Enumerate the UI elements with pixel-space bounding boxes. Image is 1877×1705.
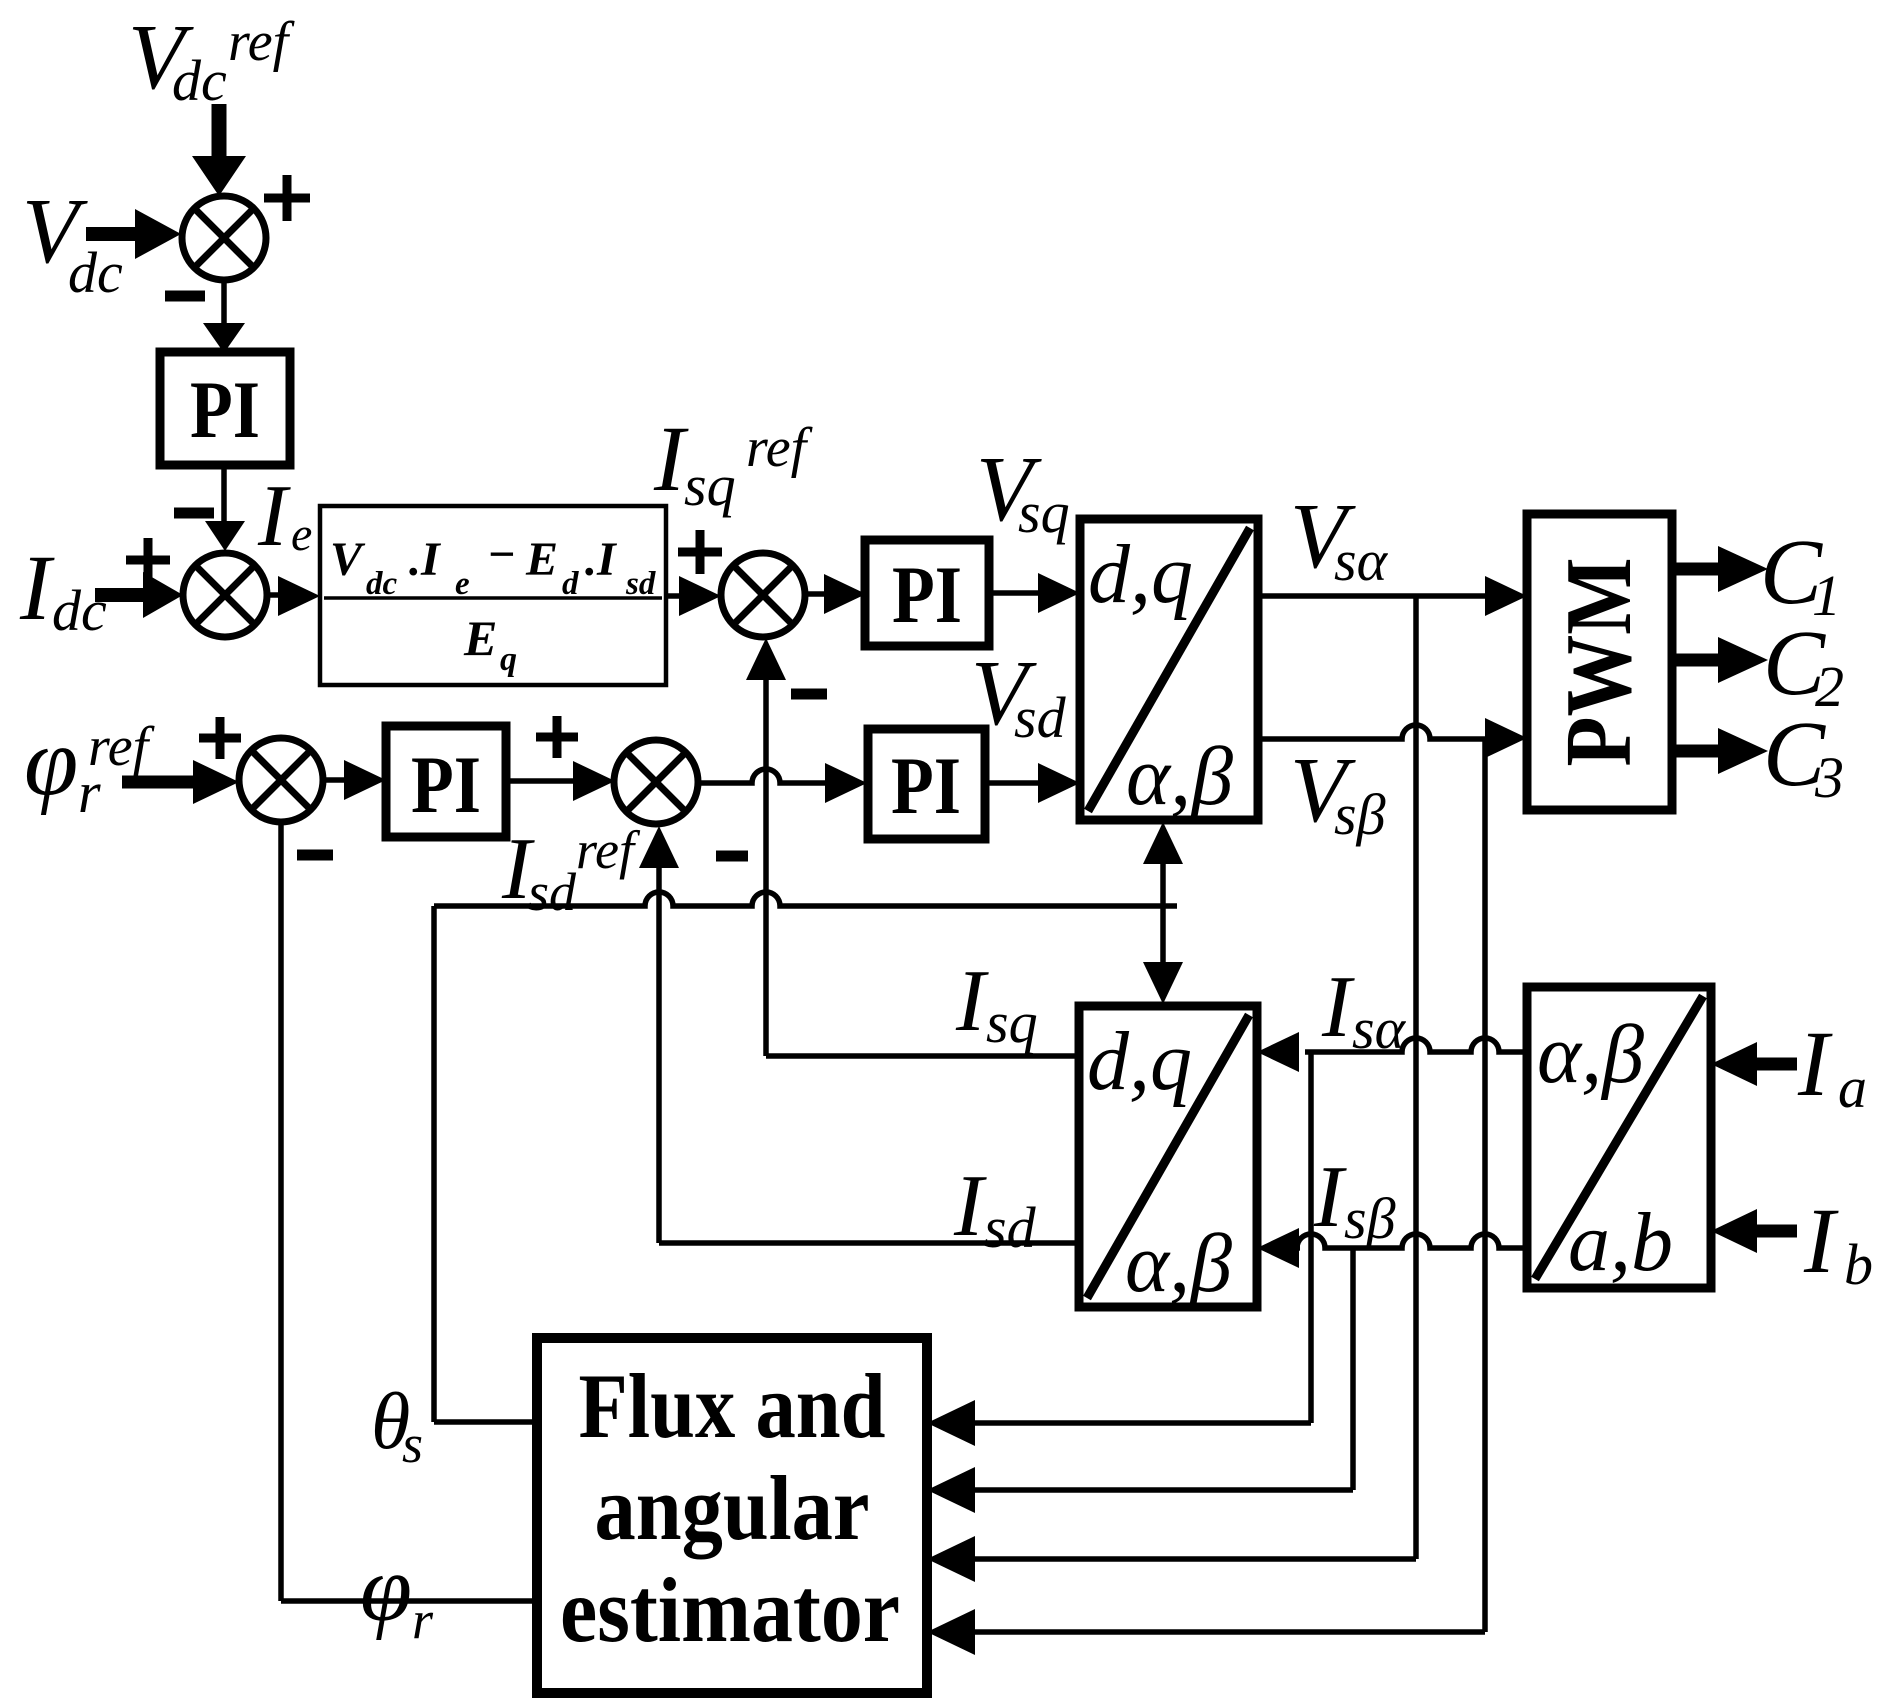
- label Isq (feedback): [955, 953, 1038, 1055]
- label Ie (error current): [257, 468, 312, 565]
- wire S1 to PI1 with arrowhead: [203, 280, 245, 353]
- minus sign at S5 bottom input: [716, 851, 748, 862]
- svg-text:E: E: [463, 610, 497, 666]
- wire Vs_beta branch down at x=1485 to estimator row: [1482, 739, 1488, 1632]
- wire theta_s from estimator up across to double arrow (hops at x659, x766): [434, 892, 1177, 1422]
- svg-text:sβ: sβ: [1334, 782, 1386, 847]
- svg-text:PI: PI: [411, 739, 481, 830]
- svg-text:PI: PI: [190, 364, 260, 455]
- label Isd (feedback): [953, 1158, 1037, 1260]
- minus sign at S1 bottom output side: [165, 291, 205, 302]
- label Ia: [1797, 1013, 1867, 1120]
- svg-text:φ: φ: [360, 1537, 412, 1641]
- svg-text:PI: PI: [891, 740, 961, 831]
- svg-text:a,b: a,b: [1568, 1196, 1673, 1289]
- svg-text:I: I: [1803, 1190, 1839, 1293]
- plus sign at S1 top-right input: [264, 175, 310, 221]
- wire Vs_alpha branch down at x=1416 to estimator row: [1413, 596, 1419, 1559]
- thick input arrow phi_r_ref into S4: [122, 760, 239, 804]
- svg-text:d: d: [562, 566, 579, 602]
- svg-text:3: 3: [1814, 745, 1844, 810]
- equation block (Vdc.Ie - Ed.Isd)/Eq: [320, 506, 666, 685]
- svg-text:I: I: [257, 468, 291, 565]
- wire Isq feedback B2 to S3: left then up with arrowhead: [746, 638, 1079, 1056]
- label Vsd: [971, 642, 1067, 750]
- wire S4 to PI3 with arrowhead: [323, 760, 386, 800]
- label phi_r_ref (rotor flux reference): [24, 708, 156, 825]
- wire Is_beta from B3 to B2 with hops, arrowhead: [1257, 1228, 1527, 1268]
- transform block B3 phase currents to alpha-beta: [1527, 987, 1711, 1289]
- thick output arrow C2: [1672, 637, 1768, 683]
- svg-text:I: I: [1313, 1149, 1347, 1246]
- wire PI2 to dq/ab block B1 with arrowhead: [989, 573, 1080, 613]
- thick output arrow C1: [1672, 546, 1768, 592]
- label Isq_ref above summing junction S3: [653, 408, 814, 518]
- svg-text:sq: sq: [684, 453, 736, 518]
- label C1: [1760, 521, 1841, 628]
- minus sign at S4 bottom input: [297, 850, 333, 861]
- svg-text:e: e: [455, 566, 470, 602]
- theta_s double-headed arrow between B1 and B2: [1143, 822, 1183, 1004]
- thick input arrow Idc into S2 left: [95, 572, 183, 618]
- svg-text:α,β: α,β: [1537, 1008, 1644, 1101]
- flux and angular estimator block: [537, 1338, 927, 1693]
- svg-text:PI: PI: [892, 549, 962, 640]
- svg-text:sd: sd: [984, 1195, 1037, 1260]
- wire equation block to S3 with arrowhead: [666, 576, 721, 616]
- label theta_s: [371, 1378, 423, 1474]
- summing junction S3 (Isq_ref - Isq): [721, 553, 805, 637]
- wire Vs_alpha into estimator right with arrowhead: [927, 1536, 1416, 1582]
- svg-text:s: s: [402, 1414, 423, 1474]
- svg-text:ref: ref: [746, 417, 814, 479]
- PI block PI2 (q-axis current controller): [865, 540, 989, 646]
- thick input arrow Vdc_ref down into summing junction S1: [192, 104, 246, 196]
- svg-text:I: I: [955, 953, 989, 1050]
- summing junction S2 (Idc + Ie): [183, 553, 267, 637]
- svg-text:d,q: d,q: [1087, 1015, 1192, 1108]
- svg-text:E: E: [525, 533, 558, 586]
- svg-text:φ: φ: [24, 708, 78, 816]
- label Vs_beta: [1290, 739, 1386, 847]
- thick input arrow Ib into B3: [1711, 1209, 1797, 1253]
- label Vdc (measured dc voltage): [22, 180, 123, 305]
- PI block PI4 (d-axis current controller): [868, 729, 985, 839]
- svg-text:q: q: [500, 641, 517, 678]
- wire Is_beta branch down at x=1353 to estimator: [1350, 1248, 1356, 1490]
- wire Vs_alpha B1 to PWM with arrowhead: [1258, 576, 1527, 616]
- wire Is_alpha branch down at x=1311 to estimator: [1308, 1052, 1314, 1423]
- svg-text:.I: .I: [409, 533, 442, 586]
- svg-text:sd: sd: [625, 566, 656, 602]
- svg-text:sq: sq: [986, 990, 1038, 1055]
- plus sign at S4 left input: [199, 717, 241, 759]
- svg-text:I: I: [19, 537, 55, 640]
- label Idc (dc current): [19, 537, 107, 643]
- svg-text:a: a: [1838, 1055, 1867, 1120]
- thick input arrow Ia into B3: [1711, 1042, 1797, 1086]
- plus sign at S2 left input: [126, 538, 170, 582]
- wire S2 to equation block with arrowhead: [267, 576, 320, 616]
- svg-text:PWM: PWM: [1547, 558, 1651, 767]
- svg-text:dc: dc: [172, 48, 227, 113]
- wire Is_alpha from B3 to B2 with hops, arrowhead: [1257, 1032, 1527, 1072]
- svg-text:ref: ref: [88, 716, 156, 778]
- svg-text:b: b: [1844, 1232, 1873, 1297]
- wire PI1 to summing junction S2 with arrowhead: [205, 465, 245, 551]
- plus sign at S5 left input: [536, 716, 578, 758]
- wire S5 to PI4 with hop over Isq feedback, arrowhead: [698, 763, 867, 803]
- svg-text:dc: dc: [68, 240, 123, 305]
- svg-text:sβ: sβ: [1344, 1186, 1396, 1251]
- label Ib: [1803, 1190, 1873, 1297]
- summing junction S1 (Vdc_ref - Vdc): [182, 196, 266, 280]
- svg-text:Flux and: Flux and: [579, 1355, 886, 1457]
- svg-text:e: e: [291, 508, 312, 561]
- svg-text:−: −: [487, 528, 516, 581]
- thick output arrow C3: [1672, 728, 1768, 774]
- label Is_alpha: [1321, 959, 1407, 1061]
- wire Is_alpha into estimator right with arrowhead: [927, 1400, 1311, 1446]
- svg-text:sα: sα: [1334, 528, 1389, 593]
- transform block B1 dq to alpha-beta (voltages): [1080, 519, 1258, 823]
- wire Is_beta into estimator right with arrowhead: [927, 1467, 1353, 1513]
- svg-text:α,β: α,β: [1125, 1217, 1232, 1310]
- label Isd_ref: [501, 820, 641, 922]
- label Vs_alpha: [1290, 485, 1389, 593]
- label Vsq: [976, 438, 1070, 545]
- label Vdc_ref (input reference): [128, 6, 296, 113]
- svg-text:ref: ref: [228, 11, 296, 73]
- label Is_beta: [1313, 1149, 1396, 1251]
- wire PI4 to dq/ab block B1 with arrowhead: [985, 763, 1080, 803]
- summing junction S5 (Isd_ref - Isd): [614, 740, 698, 824]
- svg-text:V: V: [330, 533, 366, 586]
- svg-text:I: I: [1321, 959, 1355, 1056]
- PI block PI3 (flux controller): [386, 726, 506, 837]
- svg-text:d,q: d,q: [1088, 528, 1193, 621]
- wire Isd feedback B2 to S5: left then up with arrowhead: [639, 826, 1079, 1243]
- svg-text:sq: sq: [1018, 480, 1070, 545]
- wire Vs_beta B1 to PWM with hop over Vs_alpha drop, arrowhead: [1258, 718, 1527, 758]
- svg-text:I: I: [1797, 1013, 1833, 1116]
- summing junction S4 (phi_ref - phi_r): [239, 738, 323, 822]
- thick input arrow Vdc into S1 left: [86, 209, 181, 259]
- minus sign at S2 top input: [174, 508, 214, 519]
- wire PI3 to S5 with arrowhead: [506, 761, 615, 801]
- label C2: [1763, 612, 1844, 719]
- svg-text:sd: sd: [1014, 685, 1067, 750]
- svg-text:dc: dc: [366, 566, 398, 602]
- wire phi_r from estimator left then up into S4 bottom: [281, 822, 537, 1601]
- svg-text:sd: sd: [528, 862, 577, 922]
- label phi_r: [360, 1537, 434, 1650]
- svg-text:dc: dc: [52, 578, 107, 643]
- transform block B2 alpha-beta to dq (measured currents): [1079, 1006, 1257, 1310]
- PWM block: [1527, 514, 1672, 810]
- svg-text:ref: ref: [576, 820, 641, 880]
- PI block PI1 (dc-bus voltage controller): [160, 352, 290, 465]
- wire Vs_beta into estimator right with arrowhead: [927, 1609, 1485, 1655]
- svg-text:.I: .I: [585, 533, 618, 586]
- wire S3 to PI2 with arrowhead: [805, 574, 866, 614]
- plus sign at S3 left input: [678, 530, 722, 574]
- minus sign at S3 bottom input: [791, 689, 827, 700]
- svg-text:estimator: estimator: [560, 1559, 900, 1661]
- label C3: [1763, 703, 1844, 810]
- svg-text:angular: angular: [595, 1457, 870, 1559]
- svg-text:α,β: α,β: [1126, 730, 1233, 823]
